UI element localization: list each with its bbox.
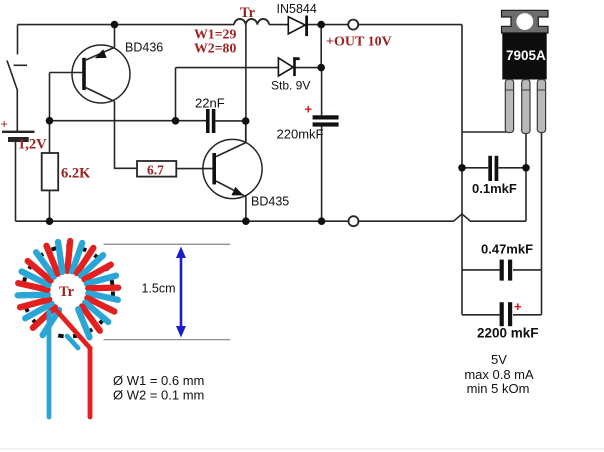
svg-text:1.5cm: 1.5cm (142, 282, 176, 296)
wire bottom rail right with hop over bus (359, 214, 527, 221)
svg-text:W2=80: W2=80 (194, 41, 236, 56)
wire node C to 220mkF (321, 68, 323, 116)
wire top rail (18, 24, 235, 26)
wire BD436 emitter vertical (114, 25, 116, 48)
capacitor C3 0.1mkF (488, 156, 498, 181)
wire 6.7 to BD435 base (176, 168, 212, 170)
wire 22nF right to node E (215, 120, 245, 122)
transistor Q1 BD436 (72, 45, 130, 103)
wire 0.1mkF left lead (462, 167, 488, 169)
switch blade (7, 61, 17, 91)
resistor R2 6.7 (137, 161, 176, 177)
junction node I (318, 217, 326, 225)
junction node J (458, 164, 466, 172)
svg-text:0.47mkF: 0.47mkF (481, 242, 533, 257)
toroid winding lead W2 red (57, 311, 90, 417)
wire right pin vertical (541, 133, 543, 315)
wire 220mkF to rail (321, 126, 323, 221)
svg-text:BD435: BD435 (251, 195, 289, 209)
wire node B down to node C (320, 25, 322, 68)
inductor Tr coil (234, 19, 269, 25)
svg-text:2200 mkF: 2200 mkF (477, 326, 539, 341)
output terminal bottom (349, 216, 359, 226)
wire BD435 collector top (245, 121, 247, 143)
svg-text:220mkF: 220mkF (277, 127, 324, 142)
wire middle pin vertical (525, 133, 527, 221)
faint photo edge bottom (0, 448, 604, 450)
svg-text:22nF: 22nF (195, 96, 225, 111)
svg-text:1,2V: 1,2V (18, 137, 47, 153)
svg-text:IN5844: IN5844 (277, 2, 317, 16)
wire to 7905 pin1 (462, 131, 507, 133)
switch contact tick (14, 64, 28, 66)
wire switch upper (17, 25, 19, 55)
wire 0.47mkF row (462, 269, 542, 271)
wire coil to diode (269, 24, 288, 26)
svg-text:0.1mkF: 0.1mkF (472, 181, 517, 196)
toroid winding stub cyan (67, 336, 78, 348)
wire base node vertical (49, 73, 51, 121)
junction node D (172, 117, 180, 125)
junction node G (46, 217, 54, 225)
wire 0.1mkF right lead (498, 167, 526, 169)
svg-text:+: + (514, 299, 522, 314)
toroid windings (18, 241, 119, 337)
capacitor C4 0.47mkF (500, 260, 513, 281)
wire zener cathode to node C (296, 67, 322, 69)
output terminal top (348, 20, 358, 30)
zener D2 Stb 9V (278, 57, 299, 76)
resistor R1 6.2K (42, 153, 59, 190)
junction node A (111, 21, 119, 29)
wire BD436 collector down and to 6.7 (115, 101, 138, 168)
wire bottom rail left (16, 220, 349, 222)
dimension arrow 1.5cm (176, 247, 186, 338)
wire 2200mkF row (462, 314, 542, 316)
dimension line top (104, 243, 231, 245)
wire BD436 base (50, 72, 83, 74)
svg-text:5V: 5V (491, 352, 507, 367)
wire right vertical bus (461, 25, 463, 315)
svg-text:Ø W2 = 0.1 mm: Ø W2 = 0.1 mm (113, 388, 204, 403)
wire 6.2K top (49, 121, 51, 153)
svg-text:6.7: 6.7 (147, 163, 164, 178)
svg-text:BD436: BD436 (125, 41, 163, 55)
wire battery to bottom rail (15, 142, 17, 221)
wire BD435 emitter to rail (245, 196, 247, 221)
transistor Q2 BD435 (203, 139, 262, 198)
svg-text:Ø W1 = 0.6 mm: Ø W1 = 0.6 mm (113, 373, 204, 388)
toroid winding lead W1 cyan (47, 312, 52, 417)
junction node B (317, 21, 325, 29)
wire switch to battery (16, 89, 18, 131)
regulator U1 7905A package (502, 10, 549, 133)
wire zener vertical to node D (175, 68, 177, 121)
battery B1 1.2V plates (2, 131, 35, 142)
toroid core dashed circle (23, 247, 113, 337)
svg-text:+: + (1, 117, 8, 132)
wire 6.2K bottom (49, 190, 51, 221)
svg-text:+: + (305, 102, 313, 117)
junction node E (242, 117, 250, 125)
svg-text:6.2K: 6.2K (61, 166, 91, 182)
wire diode to terminal (308, 24, 348, 26)
capacitor C5 2200mkF (500, 302, 513, 326)
svg-text:7905A: 7905A (506, 48, 546, 63)
svg-text:W1=29: W1=29 (194, 27, 236, 42)
wire zener branch horizontal (176, 67, 279, 69)
diode D1 IN5844 (288, 16, 308, 37)
svg-text:Tr: Tr (240, 5, 256, 21)
capacitor C2 220mkF (313, 115, 339, 126)
svg-text:Tr: Tr (59, 284, 75, 300)
wire node F to node D (50, 120, 207, 122)
junction node F (46, 117, 54, 125)
svg-text:min 5 kOm: min 5 kOm (467, 381, 530, 396)
svg-text:max 0.8 mA: max 0.8 mA (464, 367, 534, 382)
junction node C (317, 64, 325, 72)
dimension line bottom (104, 339, 231, 341)
svg-text:Stb. 9V: Stb. 9V (271, 79, 310, 93)
junction node H (242, 217, 250, 225)
svg-text:+OUT 10V: +OUT 10V (326, 35, 392, 50)
junction node K (522, 164, 530, 172)
wire terminal to right corner (358, 24, 462, 26)
capacitor C1 22nF (206, 109, 215, 133)
wire transformer tap vertical (245, 25, 247, 143)
